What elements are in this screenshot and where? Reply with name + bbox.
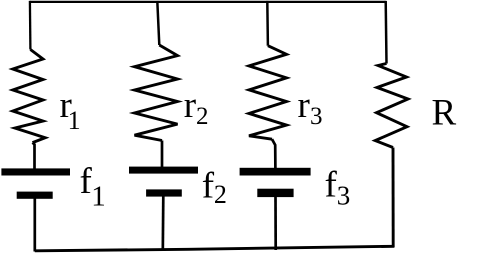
wire branch1 top lead xyxy=(29,1,32,50)
svg-text:2: 2 xyxy=(196,103,209,130)
wire r1 to f1 xyxy=(33,143,35,170)
svg-text:r: r xyxy=(298,85,310,126)
resistor R xyxy=(375,64,408,148)
wire branch2 top lead xyxy=(157,1,159,45)
wire branch3 top lead xyxy=(266,1,269,46)
svg-text:3: 3 xyxy=(310,103,323,130)
resistor r2 xyxy=(135,45,178,141)
svg-text:1: 1 xyxy=(91,180,106,212)
svg-text:1: 1 xyxy=(68,106,81,135)
resistor r1 xyxy=(13,50,45,143)
wire branch4 top lead xyxy=(384,1,387,64)
wire f2 to bottom rail xyxy=(161,196,164,251)
svg-text:r: r xyxy=(184,85,196,126)
battery f2 xyxy=(129,167,198,197)
svg-text:R: R xyxy=(432,92,457,133)
wire f1 to bottom rail xyxy=(33,198,36,252)
wire bottom rail xyxy=(35,246,395,251)
wire r3 to f3 xyxy=(272,139,275,168)
wire R to bottom rail xyxy=(392,148,395,248)
wire f3 to bottom rail xyxy=(274,196,277,250)
wire top rail xyxy=(30,1,386,3)
svg-text:2: 2 xyxy=(214,180,227,209)
resistor r3 xyxy=(249,46,287,140)
svg-text:f: f xyxy=(325,165,338,206)
wire r2 to f2 xyxy=(161,141,164,169)
battery f3 xyxy=(240,168,311,197)
svg-text:3: 3 xyxy=(337,180,351,210)
svg-text:f: f xyxy=(202,165,215,206)
battery f1 xyxy=(1,168,70,198)
